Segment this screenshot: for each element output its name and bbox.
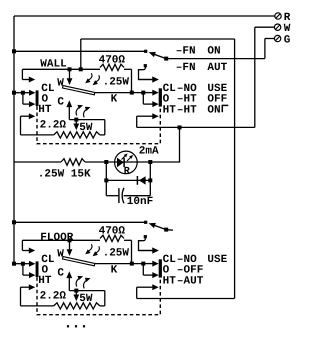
wire K (WALL)	[95, 92, 144, 94]
label 5W (FLOOR)	[79, 293, 93, 305]
pot adjust arrows (FLOOR)	[85, 244, 99, 256]
svg-text:.25W 15K: .25W 15K	[38, 168, 91, 180]
wire G vertical	[264, 39, 266, 59]
svg-text:2mA: 2mA	[139, 146, 159, 158]
label CL -NO USE (FLOOR)	[163, 254, 228, 266]
svg-text:R: R	[124, 166, 130, 177]
node pot wiper feed (WALL)	[68, 67, 72, 71]
right switch top arrow (WALL)	[139, 77, 159, 83]
svg-text:–FN: –FN	[176, 62, 196, 74]
wire thermostat top (FLOOR)	[22, 239, 131, 241]
pot wiper arrow W (FLOOR)	[67, 240, 73, 256]
node left switch bus junction (WALL)	[12, 91, 16, 95]
label .25W 15K	[38, 168, 91, 180]
resistor 470ohm (WALL)	[100, 64, 124, 70]
svg-text:5W: 5W	[79, 293, 93, 305]
label 2.2ohm (FLOOR)	[40, 291, 67, 303]
svg-text:C: C	[57, 268, 64, 280]
switch FAN arm	[149, 52, 167, 59]
svg-text:–FN: –FN	[176, 46, 196, 58]
wire FLOOR feed	[14, 221, 146, 223]
wire R bus top	[14, 15, 275, 17]
dashed selector linkage (WALL)	[37, 106, 160, 143]
node WALL top to crossover	[79, 67, 83, 71]
svg-text:K: K	[111, 265, 118, 277]
node K-470 junction (WALL)	[130, 91, 134, 95]
right switch O arrow (FLOOR)	[143, 272, 158, 278]
wire indicator row	[14, 161, 180, 163]
node HT-LED junction	[178, 125, 182, 129]
svg-text:5W: 5W	[79, 122, 93, 134]
wire W terminal to vertical	[255, 26, 275, 28]
label -FN ON	[176, 46, 221, 58]
node fan pivot	[164, 57, 168, 61]
left switch bar (WALL)	[36, 90, 39, 106]
wire top-left drop to arrow (WALL)	[22, 69, 35, 82]
LED D1 cathode bar	[123, 158, 125, 168]
terminal G (slashed circle)	[274, 35, 280, 41]
node K branch (FLOOR)	[141, 262, 145, 266]
dashed selector linkage (FLOOR)	[37, 277, 160, 314]
ellipsis dots	[67, 325, 85, 327]
contact fan AUT	[144, 64, 147, 67]
label .25W (FLOOR)	[103, 247, 130, 259]
node K-470 junction (FLOOR)	[130, 262, 134, 266]
capacitor C1 plates	[119, 188, 124, 204]
svg-text:470Ω: 470Ω	[99, 54, 126, 66]
wire K branch drop (WALL)	[142, 93, 144, 105]
terminal C arrow (FLOOR)	[66, 271, 72, 290]
wire fan AUT hook	[139, 67, 159, 83]
wire G terminal lead	[265, 38, 275, 40]
node LED right	[148, 160, 152, 164]
wire LED branch vertical	[179, 127, 181, 162]
right switch bar (WALL)	[159, 88, 162, 106]
svg-text:ON: ON	[207, 104, 220, 116]
label HT left (FLOOR)	[38, 275, 52, 287]
wire anticipator right (FLOOR)	[69, 291, 105, 306]
label C (WALL)	[57, 97, 64, 109]
wire anticipator left (FLOOR)	[21, 287, 54, 306]
wire W vertical	[254, 27, 256, 127]
LED emission arrows	[122, 153, 134, 161]
anticipator wiper arrow (WALL)	[73, 120, 79, 131]
terminal R (slashed circle)	[275, 13, 281, 19]
label K (FLOOR)	[111, 265, 118, 277]
label O -OFF (FLOOR)	[163, 264, 204, 276]
svg-text:W: W	[284, 23, 291, 35]
label W	[284, 23, 291, 35]
svg-text:2.2Ω: 2.2Ω	[40, 120, 67, 132]
right switch HT arrow (WALL)	[137, 113, 159, 119]
label HT -AUT (FLOOR)	[163, 275, 204, 287]
node LED left	[104, 160, 108, 164]
left switch HT arrow (WALL)	[21, 113, 36, 119]
wire anticipator left (WALL)	[21, 116, 54, 135]
contact fan ON	[144, 50, 147, 53]
wire crossover drop	[80, 39, 82, 69]
wire cap row left	[106, 195, 118, 197]
label CL left (WALL)	[41, 83, 55, 95]
label HT -HT ON	[163, 104, 221, 116]
wire fan pivot to G	[166, 58, 265, 60]
svg-text:–HT: –HT	[177, 104, 197, 116]
pot resistive bar (FLOOR)	[63, 257, 95, 266]
svg-text:AUT: AUT	[207, 62, 227, 74]
wire cross-over y39	[81, 38, 235, 40]
right switch HT arrow (FLOOR)	[137, 284, 159, 290]
anticipator adjust arrows (FLOOR)	[76, 276, 90, 288]
label WALL	[40, 58, 67, 70]
wire top-left drop to arrow (FLOOR)	[22, 240, 35, 253]
terminal W (slashed circle)	[274, 24, 280, 30]
label R (red LED)	[124, 166, 130, 177]
right switch CL arrow (WALL)	[143, 90, 158, 96]
label HT left (WALL)	[38, 104, 52, 116]
wire FLOOR AUT hook	[139, 238, 159, 254]
svg-text:R: R	[284, 12, 291, 24]
right switch O arrow (WALL)	[143, 101, 158, 107]
wire left bus vertical	[13, 16, 15, 264]
node FLOOR arm pivot	[164, 228, 168, 232]
resistor 470ohm (FLOOR)	[100, 235, 124, 241]
label 10nF	[127, 196, 153, 208]
node anticipator wiper (FLOOR)	[74, 289, 78, 293]
label 2mA	[139, 146, 159, 158]
wire K branch drop (FLOOR)	[142, 264, 144, 276]
resistor 15K	[61, 159, 85, 166]
label W wiper (FLOOR)	[57, 248, 64, 260]
LED D1 triangle	[117, 158, 124, 168]
left switch O arrow (WALL)	[23, 101, 36, 107]
wire 470 right drop (WALL)	[131, 69, 133, 92]
pot resistive bar (WALL)	[63, 86, 95, 95]
svg-text:USE: USE	[207, 254, 227, 266]
right switch CL arrow (FLOOR)	[143, 261, 158, 267]
label -FN AUT	[176, 62, 228, 74]
svg-text:HT: HT	[38, 104, 52, 116]
wire HT output (WALL)	[137, 116, 255, 127]
node left switch branch (WALL)	[21, 91, 25, 95]
svg-text:470Ω: 470Ω	[99, 225, 126, 237]
label O left (WALL)	[42, 93, 49, 105]
label CL left (FLOOR)	[41, 254, 55, 266]
label CL -NO USE	[163, 83, 228, 95]
partial glyph T clipped	[222, 105, 229, 112]
LED D1 circle	[115, 151, 138, 174]
label FLOOR	[40, 232, 73, 244]
label W wiper (WALL)	[57, 77, 64, 89]
wire FLOOR pivot stub	[166, 229, 173, 232]
anticipator adjust arrows (WALL)	[76, 105, 90, 117]
svg-text:2.2Ω: 2.2Ω	[40, 291, 67, 303]
wire HT output (FLOOR)	[137, 287, 235, 298]
wire fan ON contact	[14, 50, 146, 52]
wire left branch drop (WALL)	[22, 93, 24, 104]
wire diode row	[106, 179, 150, 181]
node fan ON wire junction on bus	[12, 49, 16, 53]
svg-text:C: C	[57, 97, 64, 109]
anticipator wiper arrow (FLOOR)	[73, 291, 79, 302]
pot wiper arrow W (WALL)	[67, 69, 73, 85]
node anticipator wiper (WALL)	[74, 118, 78, 122]
resistor 2.2ohm (FLOOR)	[54, 303, 100, 309]
label 470ohm (FLOOR)	[99, 225, 126, 237]
right switch bar (FLOOR)	[159, 259, 162, 277]
svg-text:HT: HT	[163, 104, 177, 116]
diode D2 (reverse)	[137, 176, 145, 185]
label O -HT OFF	[163, 93, 228, 105]
wire diode row verticals	[106, 162, 150, 196]
contact FLOOR AUT	[144, 235, 147, 238]
left switch CL arrow (WALL)	[14, 90, 35, 96]
svg-text:K: K	[111, 94, 118, 106]
node left switch branch (FLOOR)	[21, 262, 25, 266]
label .25W (WALL)	[103, 76, 130, 88]
label 5W (WALL)	[79, 122, 93, 134]
svg-text:10nF: 10nF	[127, 196, 153, 208]
node K branch (WALL)	[141, 91, 145, 95]
wire 470 right drop (FLOOR)	[131, 240, 133, 263]
resistor 2.2ohm (WALL)	[54, 132, 100, 138]
contact FLOOR arm top	[144, 221, 147, 224]
wire long vertical x234	[234, 39, 236, 299]
svg-text:.25W: .25W	[103, 76, 130, 88]
node diode right	[148, 178, 152, 182]
svg-text:HT: HT	[163, 275, 177, 287]
switch FLOOR arm	[149, 223, 167, 230]
wire cap row right	[124, 195, 151, 197]
label G	[284, 34, 291, 46]
svg-text:–AUT: –AUT	[177, 275, 204, 287]
label 2.2ohm (WALL)	[40, 120, 67, 132]
wire thermostat top (WALL)	[22, 68, 131, 70]
wire K (FLOOR)	[95, 263, 144, 265]
svg-text:HT: HT	[38, 275, 52, 287]
terminal C arrow (WALL)	[66, 100, 72, 119]
label C (FLOOR)	[57, 268, 64, 280]
svg-text:G: G	[284, 34, 291, 46]
left switch bar (FLOOR)	[36, 261, 39, 277]
svg-text:.25W: .25W	[103, 247, 130, 259]
label 470ohm (WALL)	[99, 54, 126, 66]
wire left branch drop (FLOOR)	[22, 264, 24, 275]
right switch top arrow (FLOOR)	[139, 248, 159, 254]
label R	[284, 12, 291, 24]
left switch CL arrow (FLOOR)	[14, 261, 35, 267]
label K (WALL)	[111, 94, 118, 106]
label O left (FLOOR)	[42, 264, 49, 276]
left switch O arrow (FLOOR)	[23, 272, 36, 278]
svg-text:WALL: WALL	[40, 58, 67, 70]
left switch HT arrow (FLOOR)	[21, 284, 36, 290]
svg-text:ON: ON	[207, 46, 220, 58]
node left switch bus junction (FLOOR)	[12, 262, 16, 266]
pot adjust arrows (WALL)	[85, 73, 99, 85]
wire anticipator right (WALL)	[69, 120, 105, 135]
node FLOOR bus junction	[12, 220, 16, 224]
node diode left	[104, 178, 108, 182]
node pot wiper feed (FLOOR)	[68, 238, 72, 242]
